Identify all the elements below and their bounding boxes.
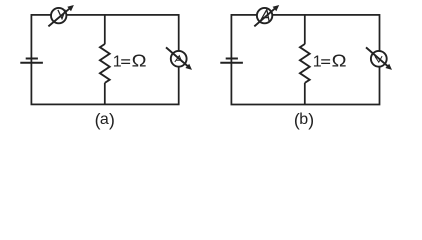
svg-text:Ω: Ω [332, 51, 347, 71]
svg-text:): ) [308, 110, 314, 130]
letter V inside meter (b right) [375, 56, 382, 62]
battery cell (b) long plate [220, 62, 243, 64]
battery cell (a) long plate [20, 62, 43, 64]
ammeter A (a right) circle [171, 51, 187, 67]
svg-text:): ) [109, 110, 115, 130]
voltmeter V (a top) circle [51, 8, 66, 23]
battery cell (a) short plate [26, 58, 38, 60]
resistor value label 1 = ohm (a) [113, 51, 147, 71]
caption (a) [95, 110, 115, 130]
variable arrow through meter (b right) [366, 47, 388, 66]
letter V inside meter (a top) [58, 10, 65, 19]
svg-text:b: b [299, 111, 308, 128]
resistor R=1ohm (a) zigzag [100, 44, 110, 83]
svg-text:a: a [100, 111, 109, 128]
variable arrow through meter (a right) [166, 47, 188, 66]
caption (b) [294, 110, 314, 130]
letter A inside meter (b top) [260, 10, 269, 22]
ammeter A (b top) circle [257, 8, 272, 23]
resistor value label 1 = ohm (b) [313, 51, 347, 71]
voltmeter V (b right) circle [371, 51, 387, 67]
svg-text:1: 1 [113, 54, 122, 71]
circuit a outer loop wire [31, 15, 178, 105]
svg-text:1: 1 [313, 54, 322, 71]
variable arrow through meter (a top) [48, 8, 69, 26]
svg-text:Ω: Ω [132, 51, 147, 71]
letter A inside meter (a right) [175, 56, 182, 62]
resistor R=1ohm (b) zigzag [300, 44, 310, 83]
battery cell (b) short plate [226, 58, 238, 60]
circuit b outer loop wire [231, 15, 379, 105]
wire resistor bottom lead (a) [104, 83, 106, 105]
variable arrow through meter (b top) [254, 8, 275, 26]
wire resistor top lead (a) [104, 15, 106, 44]
wire resistor top lead (b) [304, 15, 306, 44]
wire resistor bottom lead (b) [304, 83, 306, 105]
